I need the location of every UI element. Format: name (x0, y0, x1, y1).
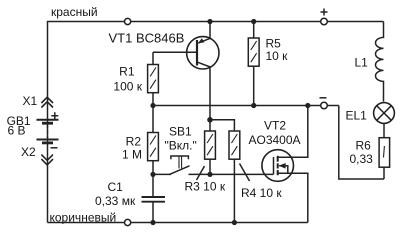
node R3 bottom gate wire (207, 172, 212, 177)
svg-text:R3 10 к: R3 10 к (185, 179, 226, 193)
battery GB1 cell2 long plate (37, 139, 59, 141)
resistor R1 (148, 52, 159, 105)
svg-text:0,33: 0,33 (350, 152, 374, 166)
battery GB1 cell1 long plate (37, 119, 59, 121)
resistor R6 (379, 123, 390, 179)
lamp EL1 (374, 103, 395, 124)
switch SB1 (153, 156, 210, 174)
wire bottom rail (48, 222, 308, 224)
resistor R2 (148, 106, 159, 175)
inductor L1 (375, 22, 383, 102)
battery plus sign (51, 112, 58, 119)
svg-text:X2: X2 (21, 145, 36, 159)
resistor R4 (210, 120, 240, 223)
svg-text:коричневый: коричневый (50, 210, 117, 224)
connector junction bottom (125, 219, 131, 225)
svg-text:VT2: VT2 (264, 118, 286, 132)
svg-text:красный: красный (51, 5, 98, 19)
transistor VT1 (153, 22, 219, 120)
svg-text:R6: R6 (356, 139, 372, 153)
svg-text:SB1: SB1 (169, 124, 192, 138)
node R4 bottom (232, 220, 237, 225)
wire gate (210, 173, 274, 175)
node C1 bottom (150, 220, 155, 225)
terminal - (321, 102, 328, 109)
svg-text:EL1: EL1 (346, 109, 368, 123)
terminal + (321, 18, 328, 25)
resistor R3 (205, 120, 216, 175)
terminal + plus sign (321, 9, 328, 16)
svg-text:C1: C1 (108, 180, 124, 194)
svg-text:"Вкл.": "Вкл." (165, 138, 197, 152)
wire R6 return to minus (339, 106, 384, 180)
node R5 top (251, 19, 256, 24)
connector junction top (125, 18, 131, 24)
battery GB1 cell2 short plate (42, 141, 53, 144)
connector X1 (41, 97, 53, 107)
wire mid negative rail (153, 105, 339, 107)
battery minus sign (51, 147, 58, 149)
svg-text:VT1 BC846B: VT1 BC846B (109, 31, 185, 46)
node R2 C1 SB1 junction (150, 172, 155, 177)
wire top rail (48, 22, 384, 223)
node collector VT1 top (207, 19, 212, 24)
node emitter divider (207, 117, 213, 123)
svg-text:R4 10 к: R4 10 к (241, 186, 282, 200)
capacitor C1 (142, 174, 166, 222)
svg-text:R1: R1 (119, 65, 135, 79)
node R1 bottom (150, 103, 155, 108)
svg-text:AO3400A: AO3400A (249, 133, 301, 147)
svg-text:L1: L1 (355, 56, 369, 70)
terminal - minus sign (320, 97, 327, 99)
svg-text:6 В: 6 В (8, 124, 26, 138)
svg-text:0,33 мк: 0,33 мк (95, 194, 136, 208)
node R5 bottom (251, 103, 256, 108)
svg-text:1 М: 1 М (122, 148, 142, 162)
battery GB1 dashed link (47, 126, 49, 139)
leader line R4 label (240, 164, 250, 182)
transistor VT2 mosfet (262, 106, 308, 223)
battery GB1 cell1 short plate (42, 122, 53, 125)
node VT2 drain (305, 103, 310, 108)
svg-text:X1: X1 (23, 94, 38, 108)
svg-text:10 к: 10 к (266, 49, 289, 63)
svg-text:100 к: 100 к (113, 80, 142, 94)
resistor R5 (248, 22, 259, 106)
leader line R3 label (197, 166, 205, 180)
connector X2 (41, 155, 53, 165)
svg-text:R2: R2 (126, 134, 142, 148)
